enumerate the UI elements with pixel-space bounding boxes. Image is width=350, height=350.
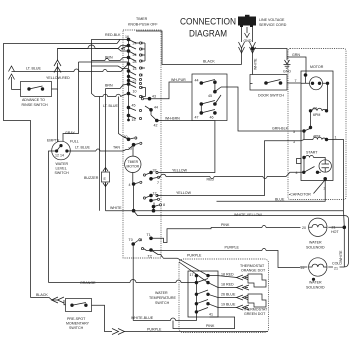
svg-text:PURPLE: PURPLE	[225, 246, 240, 250]
timer terminal 7 red	[149, 176, 159, 185]
timer left terminal bus	[128, 40, 130, 121]
timer switch levers and contacts	[121, 40, 146, 120]
svg-text:WATER: WATER	[56, 162, 69, 166]
svg-text:COLD: COLD	[332, 262, 342, 266]
svg-text:LT. BLUE: LT. BLUE	[103, 104, 119, 108]
motor terminal tab	[297, 159, 302, 164]
svg-text:43: 43	[152, 95, 156, 99]
svg-text:YELLOW-RED: YELLOW-RED	[46, 76, 70, 80]
svg-text:45: 45	[208, 94, 212, 98]
timer terminal 12 yellow2	[143, 192, 158, 200]
svg-text:TEMPERATURE: TEMPERATURE	[149, 296, 176, 300]
svg-text:PURPLE: PURPLE	[147, 328, 162, 332]
thermostat ORANGE DOT blob	[240, 264, 266, 287]
wire YELLOW 2 from timer 12 to motor 3 riser	[157, 141, 301, 196]
svg-text:1: 1	[335, 136, 337, 140]
svg-text:2: 2	[324, 187, 326, 191]
wire PURPLE 1 from T1 contact to cold solenoid	[147, 246, 301, 268]
svg-text:12 14: 12 14	[55, 154, 64, 158]
svg-text:4: 4	[129, 183, 131, 187]
svg-text:PINK: PINK	[206, 324, 215, 328]
svg-text:BLACK: BLACK	[203, 60, 215, 64]
door switch	[250, 75, 301, 98]
svg-text:T0: T0	[129, 238, 133, 242]
svg-text:44: 44	[195, 79, 199, 83]
svg-text:START: START	[306, 151, 318, 155]
svg-text:7: 7	[295, 79, 297, 83]
svg-text:HOT: HOT	[331, 230, 339, 234]
svg-text:ORANGE: ORANGE	[80, 281, 96, 285]
timer motor	[125, 145, 141, 184]
water solenoid HOT	[306, 218, 344, 249]
svg-text:FULL: FULL	[70, 140, 79, 144]
wire white-yellow corner to hot solenoid junction	[343, 211, 346, 228]
wire T0 riser down	[132, 244, 134, 321]
svg-text:RINSE SWITCH: RINSE SWITCH	[22, 103, 49, 107]
timer terminal 42 wire WH-BRN	[151, 113, 215, 128]
capacitor node 2 wire	[217, 177, 328, 201]
water temp switch contact box	[188, 271, 218, 317]
connector arrow on yellow-red riser	[54, 60, 61, 90]
water temperature switch label	[149, 291, 176, 305]
wire RED-BLK from x91 riser	[58, 33, 129, 51]
svg-text:ADVANCE TO: ADVANCE TO	[22, 98, 45, 102]
svg-text:YELLOW: YELLOW	[172, 169, 188, 173]
svg-text:BLUE: BLUE	[275, 198, 285, 202]
svg-text:WH-PUR: WH-PUR	[171, 78, 186, 82]
svg-text:TIMER: TIMER	[128, 160, 139, 164]
svg-text:•CAPACITOR: •CAPACITOR	[289, 193, 311, 197]
svg-text:44: 44	[154, 106, 158, 110]
motor 6PM winding	[309, 107, 328, 128]
wire BLACK from plug down-left to timer top	[136, 31, 242, 65]
wire GRAY riser from water level switch	[63, 62, 129, 145]
water solenoid COLD	[300, 258, 344, 290]
motor assembly dashed box	[288, 49, 346, 200]
wire lt-blue riser long	[99, 97, 101, 211]
svg-text:19 BLUE: 19 BLUE	[221, 303, 236, 307]
svg-text:18 RED: 18 RED	[221, 283, 234, 287]
wire to terminal 28	[92, 61, 129, 69]
svg-text:PINK: PINK	[221, 223, 230, 227]
svg-text:CONNECTION: CONNECTION	[180, 17, 236, 28]
plug prongs / cord wires with connector arrows	[239, 27, 256, 84]
svg-text:WHITE: WHITE	[254, 58, 258, 70]
motor 4PM winding and terminals 5 3	[293, 126, 344, 211]
svg-text:47: 47	[195, 116, 199, 120]
svg-text:SWITCH: SWITCH	[155, 301, 170, 305]
svg-text:SOLENOID: SOLENOID	[306, 286, 325, 290]
wire WHITE-BLUE	[131, 312, 196, 321]
wire PURPLE 2 into thermostat box	[161, 254, 209, 283]
wire TAN	[106, 146, 121, 211]
wire PINK loop at thermostat box bottom	[173, 317, 235, 329]
svg-text:GRN-BLK: GRN-BLK	[272, 127, 289, 131]
svg-text:YELLOW: YELLOW	[176, 191, 192, 195]
svg-text:RED: RED	[207, 178, 215, 182]
wire from water level switch left dot down (orange riser)	[49, 151, 57, 283]
water level switch	[47, 139, 79, 176]
svg-text:7: 7	[157, 181, 159, 185]
title CONNECTION DIAGRAM	[180, 17, 236, 40]
svg-text:WH-BRN: WH-BRN	[165, 117, 180, 121]
wire GRN from junction to motor frame ground	[253, 49, 307, 76]
svg-text:DIAGRAM: DIAGRAM	[189, 29, 227, 40]
wire BRN 2	[105, 84, 129, 172]
svg-text:15: 15	[132, 118, 136, 122]
svg-text:WHITE-YELLOW: WHITE-YELLOW	[234, 213, 262, 217]
timer terminal number labels	[122, 35, 137, 122]
svg-text:LINE VOLTAGE: LINE VOLTAGE	[259, 18, 285, 22]
thermostat enclosure dashed box	[179, 259, 269, 333]
svg-text:30: 30	[124, 135, 128, 139]
svg-text:ORANGE DOT: ORANGE DOT	[241, 269, 266, 273]
buzzer	[84, 168, 110, 188]
svg-text:WHITE: WHITE	[339, 250, 343, 262]
svg-text:GREEN DOT: GREEN DOT	[244, 312, 266, 316]
motor START winding	[302, 151, 325, 160]
wire LT. BLUE with connector chevrons at left	[9, 64, 129, 90]
svg-text:8: 8	[163, 203, 165, 207]
label CAPACITOR with pointer	[289, 180, 325, 197]
wire second top: yellow-red riser corner	[58, 46, 129, 61]
svg-text:PURPLE: PURPLE	[187, 254, 202, 258]
wire ORANGE	[49, 280, 197, 286]
svg-text:41: 41	[209, 313, 213, 317]
svg-text:WATER: WATER	[309, 241, 322, 245]
svg-text:21: 21	[334, 267, 338, 271]
svg-text:4: 4	[296, 171, 298, 175]
svg-text:22: 22	[301, 266, 305, 270]
timer terminal 4 (motor bottom)	[129, 181, 142, 206]
svg-text:BRN: BRN	[105, 84, 113, 88]
wire LT BLUE 2 to terminal 45	[103, 97, 129, 140]
svg-text:GND: GND	[244, 39, 252, 43]
timer terminal dots left column	[127, 38, 131, 122]
svg-text:THERMOSTAT: THERMOSTAT	[240, 264, 265, 268]
svg-text:THERMOSTAT: THERMOSTAT	[243, 308, 268, 312]
thermostat GREEN DOT blob	[243, 294, 268, 316]
timer terminal 44	[145, 106, 158, 116]
svg-text:BLACK: BLACK	[36, 293, 48, 297]
svg-text:GND: GND	[283, 70, 291, 74]
wire YELLOW 1 from timer 32 to start box 46	[162, 121, 215, 173]
svg-text:BUZZER: BUZZER	[84, 176, 99, 180]
timer terminals T0 T1 T2	[129, 228, 212, 259]
svg-text:46: 46	[210, 116, 214, 120]
svg-text:10: 10	[133, 90, 137, 94]
svg-text:KNOB-PUSH OFF: KNOB-PUSH OFF	[128, 23, 158, 27]
svg-text:WHITE: WHITE	[110, 206, 122, 210]
svg-text:26 BLUE: 26 BLUE	[221, 293, 236, 297]
thermostat wires with connector arrows	[208, 273, 249, 311]
svg-text:20: 20	[302, 226, 306, 230]
svg-text:EMPTY: EMPTY	[47, 139, 60, 143]
wire PINK to hot solenoid	[211, 223, 306, 230]
svg-text:45: 45	[132, 104, 136, 108]
svg-text:22: 22	[313, 107, 317, 111]
svg-text:T1: T1	[147, 233, 151, 237]
svg-text:RED-BLK: RED-BLK	[105, 33, 121, 37]
svg-text:5: 5	[293, 130, 295, 134]
wire top border black: from left edge loop	[4, 40, 129, 298]
svg-text:WATER: WATER	[155, 291, 168, 295]
svg-text:SWITCH: SWITCH	[55, 171, 70, 175]
svg-text:MOTOR: MOTOR	[127, 165, 140, 169]
wire WHITE / WHITE-YELLOW main bus	[106, 206, 349, 267]
motor main winding	[301, 73, 329, 111]
wire from motor 4 to yellow riser	[159, 172, 302, 178]
svg-text:TAN: TAN	[113, 146, 120, 150]
timer bottom terminals on white wire	[132, 203, 165, 213]
svg-text:MOTOR: MOTOR	[310, 65, 324, 69]
line voltage service cord plug	[238, 15, 287, 27]
ground symbol GND	[283, 60, 291, 74]
motor start switch and terminal 4	[296, 158, 322, 176]
svg-text:PRE-SPOT: PRE-SPOT	[67, 317, 86, 321]
pre-spot momentary switch	[66, 299, 92, 331]
svg-text:17: 17	[190, 273, 194, 277]
svg-text:WATER: WATER	[309, 281, 322, 285]
push-to-start switch box	[192, 74, 301, 131]
wire from pre-spot down to purple bottom	[92, 305, 269, 334]
svg-text:GRAY: GRAY	[65, 131, 76, 135]
wire LT. BLUE from water level switch to timer	[67, 146, 129, 152]
motor inner solid box	[301, 71, 333, 181]
svg-text:LT. BLUE: LT. BLUE	[26, 67, 42, 71]
start capacitor	[319, 160, 331, 172]
wire WHITE vertical to cold solenoid	[339, 227, 344, 267]
svg-text:16: 16	[125, 35, 129, 39]
advance to rinse switch	[12, 82, 58, 108]
timer terminal 9	[149, 198, 159, 206]
timer dashed box TIMER KNOB-PUSH OFF	[123, 17, 161, 258]
timer terminal 43 wire WH-PUR	[141, 78, 192, 100]
svg-text:LT. BLUE: LT. BLUE	[75, 146, 91, 150]
timer terminal 32 yellow	[143, 169, 162, 177]
svg-text:T2: T2	[148, 255, 152, 259]
timer terminal 30	[124, 135, 137, 141]
svg-text:SOLENOID: SOLENOID	[306, 246, 325, 250]
svg-text:DOOR SWITCH: DOOR SWITCH	[258, 94, 284, 98]
wire BRN 1	[92, 44, 129, 61]
svg-text:6PM: 6PM	[313, 113, 320, 117]
wire empty riser down to water level switch	[57, 89, 59, 142]
svg-text:LEVEL: LEVEL	[56, 167, 67, 171]
svg-text:WHITE-BLUE: WHITE-BLUE	[131, 316, 154, 320]
svg-text:MOMENTARY: MOMENTARY	[66, 322, 90, 326]
svg-text:42: 42	[154, 124, 158, 128]
timer terminal 13	[128, 142, 142, 150]
svg-text:SERVICE CORD: SERVICE CORD	[259, 23, 287, 27]
svg-text:SWITCH: SWITCH	[69, 326, 84, 330]
svg-text:TIMER: TIMER	[136, 17, 148, 21]
wire BLACK to pre-spot switch	[31, 293, 66, 305]
node: cord junction dot	[251, 47, 254, 50]
node junction dot hot solenoid	[343, 226, 347, 230]
svg-text:GRN: GRN	[292, 53, 300, 57]
